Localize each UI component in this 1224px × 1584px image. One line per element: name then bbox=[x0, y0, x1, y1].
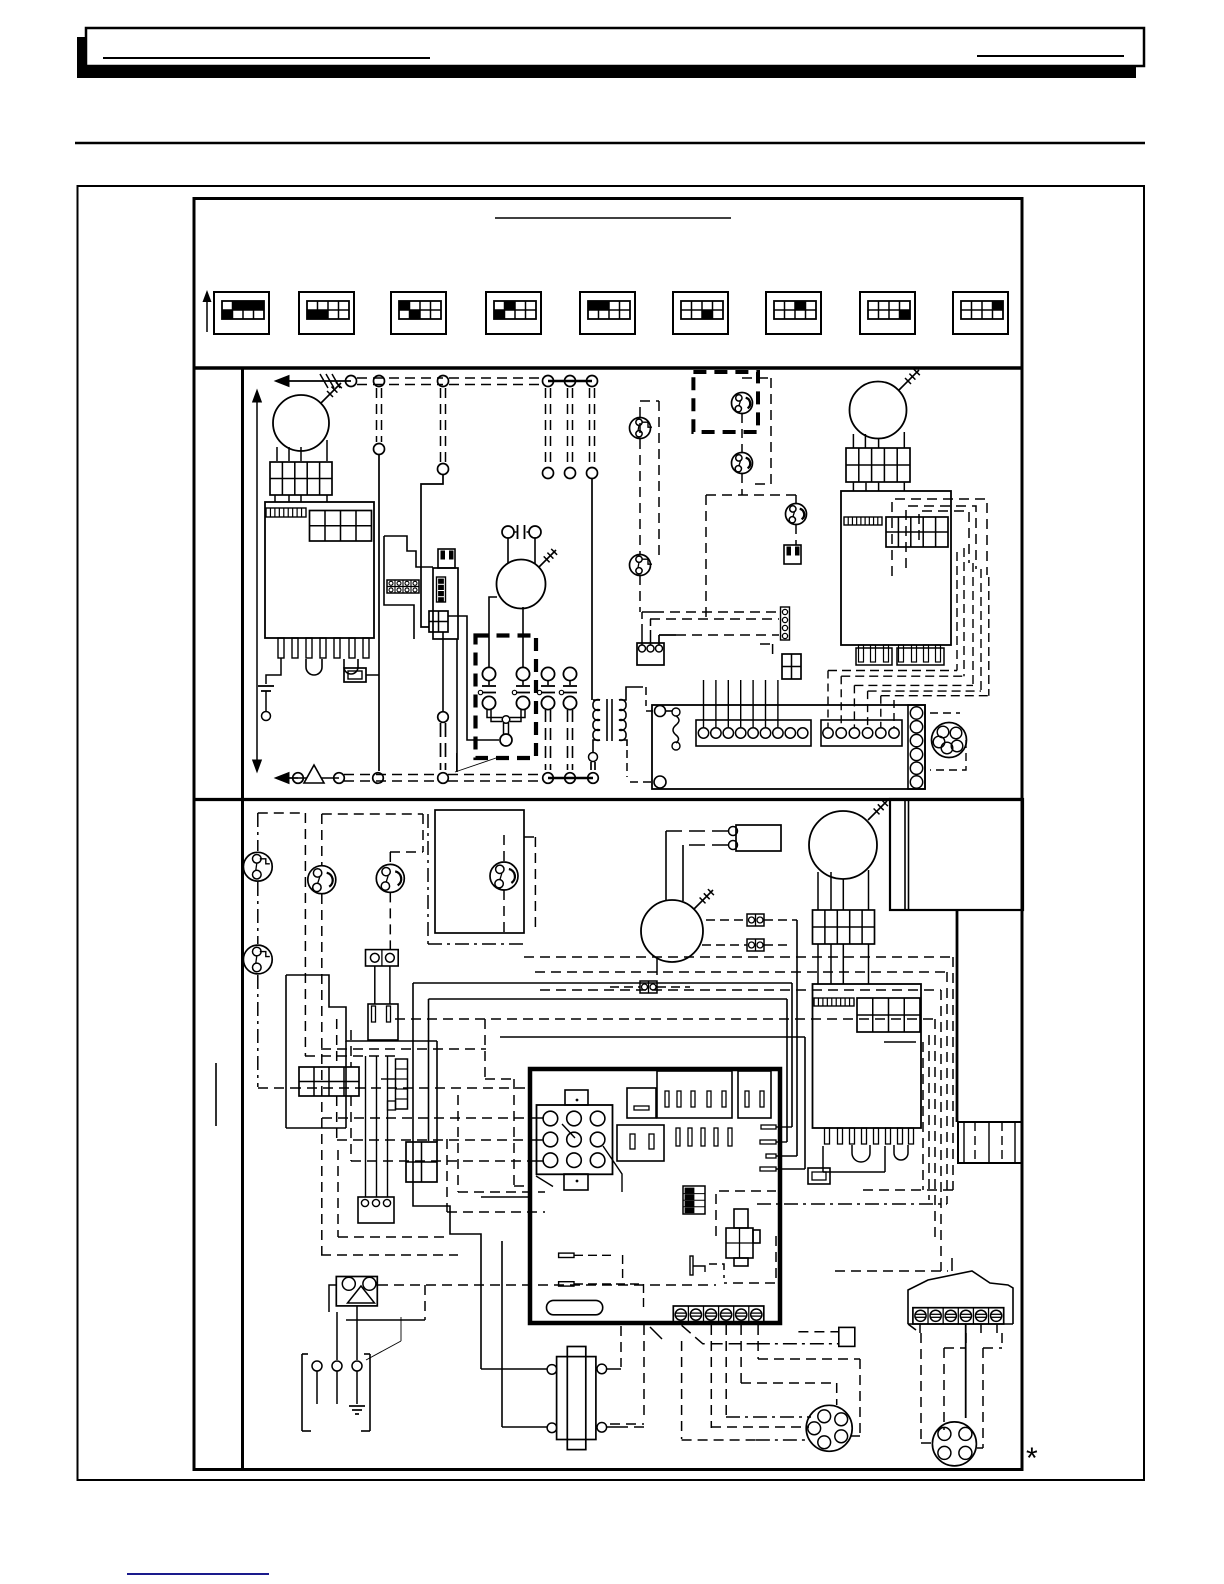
fuse F4 bbox=[808, 1168, 830, 1184]
blower motor M4 bbox=[809, 811, 877, 879]
drop to node x443 bbox=[440, 388, 442, 462]
M4 grid bbox=[813, 910, 875, 944]
R1 terminal strip bbox=[266, 508, 306, 517]
staircase wire bbox=[286, 975, 437, 1041]
dip switch box 1 bbox=[214, 292, 269, 334]
igniter plug bbox=[438, 549, 455, 568]
fuse link F1 bbox=[747, 914, 764, 926]
title line bbox=[495, 217, 731, 219]
blower motor M2 bbox=[497, 560, 546, 609]
plug ground symbol bbox=[349, 1405, 365, 1407]
dashed drop A bbox=[304, 813, 306, 1056]
vent box bbox=[435, 810, 524, 933]
field strip boundary bbox=[908, 1271, 1013, 1324]
blower control board bbox=[841, 491, 951, 645]
warning triangle bbox=[304, 765, 324, 783]
outer frame bbox=[78, 186, 1145, 1480]
CB-u strip2 bbox=[821, 720, 902, 746]
2-term block bbox=[366, 950, 399, 966]
M2 left wire bbox=[489, 597, 497, 667]
pressure switch PS2 bbox=[243, 945, 272, 974]
3-term igniter block bbox=[358, 1197, 394, 1223]
junction hatch box bbox=[958, 1122, 1022, 1163]
x457 wire bbox=[456, 639, 458, 772]
spark transformer bbox=[336, 1277, 377, 1306]
dip switch box 3 bbox=[391, 292, 446, 334]
fuse link F3 bbox=[640, 981, 657, 993]
gas area dashed box bbox=[706, 494, 796, 496]
transformer bbox=[593, 700, 600, 711]
dip switch box 5 bbox=[580, 292, 635, 334]
pin hooks bbox=[306, 659, 322, 675]
dip switch box 6 bbox=[673, 292, 728, 334]
main control board bbox=[530, 1069, 780, 1323]
M1 leads bbox=[276, 447, 278, 461]
M3 leads bbox=[656, 958, 658, 975]
board dip bbox=[683, 1186, 705, 1214]
dashed nets right bbox=[524, 956, 953, 958]
quad block hi bbox=[782, 654, 801, 679]
gv hooks bbox=[852, 1145, 870, 1162]
flame plug bbox=[374, 966, 376, 1004]
sparker wires bbox=[329, 1285, 336, 1312]
door switch wires bbox=[607, 1368, 621, 1370]
igniter strip bbox=[396, 1059, 408, 1109]
gv pins bbox=[825, 1128, 830, 1144]
CB-u right column bbox=[908, 705, 925, 789]
harness horizontals bbox=[654, 611, 779, 613]
board jack plus bbox=[726, 1228, 753, 1258]
plug P-hi bbox=[784, 545, 801, 564]
switch S1 bbox=[308, 866, 336, 894]
board header A bbox=[657, 1071, 732, 1118]
round connector CN-u bbox=[932, 723, 967, 758]
bottom bus bbox=[281, 777, 298, 779]
CN-u dashes bbox=[930, 712, 960, 714]
gv grid bbox=[857, 998, 920, 1032]
gv strip bbox=[814, 998, 854, 1006]
aux limit switch LS3 bbox=[630, 418, 651, 439]
Q1 branch right bbox=[448, 616, 499, 740]
fuse link F2 bbox=[747, 939, 764, 951]
board relay bbox=[627, 1088, 656, 1118]
jumper JW2 bbox=[559, 1282, 574, 1286]
quad block Q1 bbox=[429, 611, 448, 632]
igniter dip strip bbox=[437, 577, 446, 602]
header shadow bbox=[77, 37, 1136, 78]
ground bbox=[258, 685, 274, 687]
blower motor M3u bbox=[850, 382, 907, 439]
quad block L bbox=[406, 1142, 437, 1182]
door switch bbox=[557, 1357, 596, 1440]
CB-u strip1 bbox=[696, 720, 811, 746]
3-term block upper bbox=[637, 643, 664, 665]
top harness bus arrow bbox=[281, 380, 351, 382]
P2 wires bbox=[920, 1333, 922, 1443]
control board CB-u bbox=[652, 705, 925, 789]
header underline left bbox=[103, 57, 430, 59]
dip row up-arrow bbox=[206, 296, 208, 332]
top bus terminals bbox=[346, 376, 357, 387]
inner diagram box bbox=[194, 199, 1022, 1470]
svg-text:*: * bbox=[1026, 1442, 1038, 1475]
M3u leads bbox=[852, 434, 854, 448]
board header B bbox=[738, 1071, 771, 1118]
wire step outline bbox=[384, 536, 433, 567]
dip strip hi bbox=[781, 607, 790, 640]
Q1 wire down bbox=[442, 632, 444, 711]
dip switch box 8 bbox=[860, 292, 915, 334]
9-pin connector bbox=[537, 1105, 613, 1174]
R1 connector grid bbox=[310, 511, 372, 542]
horizontal rule bbox=[75, 142, 1145, 145]
inducer motor M1 bbox=[273, 395, 329, 451]
bcb pins bbox=[856, 648, 892, 665]
M3u grid bbox=[846, 448, 910, 482]
limit switch LS2 bbox=[732, 453, 753, 474]
grid feeds bbox=[336, 1019, 338, 1067]
control module R1 bbox=[265, 502, 374, 638]
footer link line bbox=[127, 1573, 269, 1575]
drops to nodes x548 x570 x592 bbox=[545, 388, 547, 466]
igniter module bbox=[433, 568, 458, 639]
strip2 harness bbox=[827, 671, 829, 729]
T1 diag wire bbox=[682, 1325, 756, 1344]
round connector P1 bbox=[806, 1405, 852, 1451]
pressure switch PS1 bbox=[243, 852, 272, 881]
round connector P2 bbox=[932, 1422, 976, 1466]
pin row 2 bbox=[676, 1128, 680, 1146]
gas valve box bbox=[813, 984, 922, 1128]
S2 drop bbox=[389, 892, 391, 949]
jack dashed box bbox=[716, 1191, 776, 1236]
bcb grid bbox=[886, 517, 948, 547]
relay box bbox=[476, 636, 537, 759]
field strip dash feed bbox=[835, 1270, 948, 1272]
relay contacts bbox=[482, 667, 495, 680]
limit box bold dashed bbox=[693, 372, 758, 432]
dip switch box 2 bbox=[299, 292, 354, 334]
drop to node x379 bbox=[376, 388, 378, 442]
bcb strip bbox=[844, 517, 882, 525]
header box bbox=[86, 28, 1144, 66]
section divider mid bbox=[194, 798, 1022, 801]
pressure switch PS-hi bbox=[786, 504, 807, 525]
board bottom wires bbox=[650, 1327, 662, 1339]
long wires right bbox=[413, 982, 792, 984]
aux limit switch LS4 bbox=[630, 555, 651, 576]
fuse bbox=[344, 668, 366, 682]
jumper JW1 bbox=[559, 1253, 574, 1257]
PS dash-dot wire bbox=[257, 813, 259, 851]
contact Y merge bbox=[487, 710, 502, 718]
R1 pins bbox=[278, 638, 284, 658]
M4 leads bbox=[817, 872, 819, 910]
bold drop bbox=[956, 910, 959, 1122]
aux box B1 bbox=[839, 1327, 855, 1346]
dip switch box 7 bbox=[766, 292, 821, 334]
right contacts bbox=[541, 667, 554, 680]
CB-u wires top solid bbox=[703, 680, 705, 727]
board terminal strip bbox=[673, 1306, 764, 1323]
key symbol bbox=[690, 1256, 693, 1275]
M1 connector grid bbox=[270, 462, 332, 495]
bcb dashed harness bbox=[892, 499, 987, 576]
switch S3 bbox=[490, 862, 518, 890]
pill bbox=[547, 1300, 603, 1314]
section divider bbox=[194, 366, 1022, 370]
left partition bbox=[241, 368, 244, 1469]
capacitor C2 bbox=[736, 825, 781, 851]
top bus dashed pair bbox=[357, 377, 443, 379]
igniter leads bbox=[365, 1056, 367, 1197]
strip stubs bbox=[919, 1324, 921, 1333]
ground wire bbox=[266, 658, 281, 684]
header underline right bbox=[977, 55, 1124, 57]
leader bbox=[455, 757, 499, 772]
capacitor bbox=[502, 526, 514, 538]
plug leader bbox=[366, 1341, 401, 1360]
blower housing box bbox=[890, 799, 1023, 910]
limit grid bbox=[299, 1067, 359, 1096]
gv bottom wires bbox=[822, 1146, 824, 1172]
dip switch box 9 bbox=[953, 292, 1008, 334]
switch S2 bbox=[376, 864, 404, 892]
limit switch LS1 bbox=[732, 393, 753, 414]
aux limit dashed rect bbox=[640, 400, 659, 402]
dashed drop B bbox=[322, 813, 423, 815]
LS1 dashed branch bbox=[742, 377, 771, 379]
CB-u left terminals bbox=[655, 706, 666, 717]
led bars bbox=[761, 1125, 776, 1129]
combustion motor M3 bbox=[641, 900, 703, 962]
field terminal strip bbox=[913, 1308, 1004, 1324]
dimension arrow bbox=[256, 398, 258, 764]
dash mesh mid bbox=[291, 1087, 530, 1089]
ground plug bbox=[301, 1354, 303, 1431]
dip switch box 4 bbox=[486, 292, 541, 334]
terminal block TB bbox=[387, 580, 419, 593]
